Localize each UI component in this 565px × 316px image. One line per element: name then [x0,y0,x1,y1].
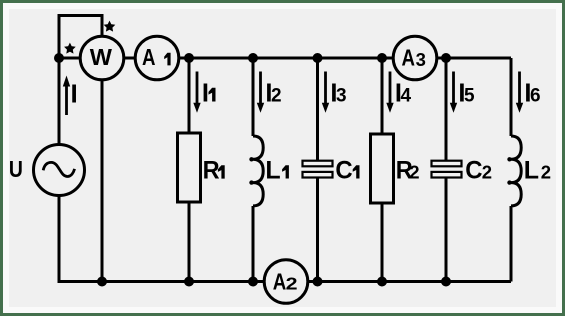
svg-text:I: I [71,79,78,109]
svg-text:R: R [203,157,220,185]
svg-text:C: C [335,156,352,184]
svg-text:6: 6 [530,86,541,107]
svg-text:L: L [524,157,539,185]
svg-text:W: W [90,44,113,70]
svg-text:A: A [273,268,287,294]
svg-text:A: A [402,45,416,71]
svg-text:2: 2 [271,86,282,107]
svg-text:C: C [465,156,482,184]
svg-text:2: 2 [482,162,492,183]
svg-text:5: 5 [464,86,475,107]
svg-text:4: 4 [401,86,412,107]
svg-text:A: A [142,44,156,70]
svg-text:3: 3 [336,86,347,107]
svg-text:I: I [202,80,209,108]
svg-text:3: 3 [416,49,426,70]
svg-text:L: L [265,157,280,185]
svg-text:2: 2 [286,273,298,293]
svg-text:2: 2 [541,162,551,183]
svg-text:U: U [9,156,23,182]
svg-text:2: 2 [409,162,419,183]
